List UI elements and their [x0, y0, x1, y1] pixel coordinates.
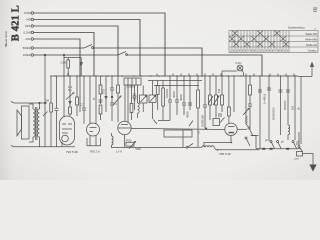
ground wire — [303, 154, 314, 166]
tube V2 — [87, 123, 100, 136]
bus junction dots — [55, 75, 296, 77]
svg-text:794 5.36: 794 5.36 — [66, 150, 78, 154]
svg-text:470Ω: 470Ω — [126, 140, 132, 143]
output transformer T1 — [33, 109, 35, 137]
switch K1 — [270, 141, 272, 143]
terminal 1 circle — [31, 12, 33, 14]
wire x256 down — [255, 136, 257, 149]
wire tube3 to tube4 — [131, 128, 225, 129]
trimmer box B — [149, 95, 156, 103]
terminal 3 circle — [31, 25, 33, 27]
svg-text:CD1: CD1 — [25, 24, 31, 28]
wire x96 to tube2 — [95, 76, 97, 124]
svg-text:Tonabn.: Tonabn. — [308, 49, 318, 53]
resistor R10 1M — [221, 95, 224, 105]
antenna arrow right — [311, 64, 313, 77]
IF transformer box — [124, 78, 141, 85]
contact line to bottom — [252, 135, 259, 137]
capacitor C8 — [175, 99, 179, 101]
wire terminal4 to x94 then down — [34, 33, 95, 77]
small box BU — [297, 152, 303, 157]
svg-text:0,2k9: 0,2k9 — [23, 31, 30, 35]
svg-text:4000: 4000 — [185, 111, 189, 118]
wire x190 — [189, 76, 191, 110]
terminal 2 circle — [31, 18, 33, 20]
table digits row — [230, 50, 289, 53]
diode D2 — [68, 101, 71, 105]
resistor R1 0,5M — [67, 60, 70, 68]
wire V3 down — [124, 135, 126, 148]
wire terminal2 to x140 then down — [34, 20, 141, 77]
tube V1 AL4 — [60, 116, 75, 145]
bus stubs up — [157, 74, 294, 77]
potentiometer arrow P4 — [113, 96, 121, 105]
svg-text:50000: 50000 — [245, 115, 249, 124]
trimmer box A — [140, 95, 148, 103]
capacitor C3 — [99, 99, 103, 101]
capacitor C13 — [248, 103, 252, 105]
wire x301 — [300, 77, 302, 145]
potentiometer P2 — [209, 95, 212, 105]
wire x125 to tube3 — [124, 85, 126, 121]
svg-text:KW9: KW9 — [24, 11, 31, 15]
svg-text:2M: 2M — [46, 100, 49, 103]
svg-text:LY 9: LY 9 — [116, 150, 122, 154]
wire x64 down to tube1 — [63, 55, 65, 117]
capacitor C15 — [267, 87, 271, 89]
junction node at x45 on terminal7 — [44, 54, 46, 56]
heater box below V2 — [87, 138, 101, 146]
wire x56 — [56, 76, 58, 108]
switch S5 on terminal7 line — [118, 52, 126, 56]
speaker line top — [11, 102, 47, 104]
resistor R6 — [117, 85, 120, 93]
wire x260 — [259, 76, 261, 149]
capacitor C16 — [279, 89, 283, 91]
capacitor C14 — [258, 89, 262, 91]
wire x295 — [294, 76, 296, 140]
svg-text:765 2.6: 765 2.6 — [90, 150, 100, 154]
svg-text:Welle-MW: Welle-MW — [305, 38, 317, 42]
diode D1 — [80, 58, 82, 77]
capacitor C12 — [218, 113, 222, 115]
svg-text:1M: 1M — [217, 88, 221, 93]
svg-text:0,0001: 0,0001 — [165, 88, 169, 98]
wire x62 short — [61, 142, 63, 147]
capacitor C4b — [110, 102, 114, 104]
resistor R14 — [76, 97, 79, 105]
wave switch table — [229, 31, 318, 53]
resistor R9 — [215, 95, 218, 105]
bottom rail right — [188, 146, 202, 148]
rail above bus — [64, 57, 81, 59]
svg-text:B 421 L: B 421 L — [10, 5, 21, 41]
wire terminal6 with switch to x202 then down — [34, 47, 85, 49]
capacitor C9 — [182, 102, 186, 104]
switch contacts right of V4 — [245, 76, 247, 124]
switch K2 — [277, 141, 279, 143]
wire terminal7 to x262 then down — [34, 54, 119, 56]
junction node at x64 on terminal7 — [63, 54, 65, 56]
svg-text:5000: 5000 — [136, 148, 142, 151]
svg-text:Welle-KW: Welle-KW — [306, 32, 318, 36]
table row captions — [305, 29, 317, 53]
capacitor C11 with long label — [203, 104, 207, 106]
heater squiggle — [202, 146, 214, 148]
resistor R15 — [130, 104, 133, 113]
svg-text:1M: 1M — [291, 105, 295, 110]
svg-text:A41: A41 — [25, 37, 31, 41]
svg-text:500000: 500000 — [283, 100, 287, 110]
svg-text:Schalterstellung: Schalterstellung — [288, 27, 305, 30]
svg-text:220V: 220V — [294, 159, 300, 161]
table X marks — [229, 31, 289, 48]
wire terminal1 to x165 then down — [34, 13, 166, 76]
svg-text:0,000185: 0,000185 — [201, 115, 205, 127]
svg-text:0,5M: 0,5M — [61, 62, 66, 65]
potentiometer P1 — [126, 142, 134, 146]
switch chain x299 — [298, 146, 300, 148]
resistor R13 — [69, 107, 72, 114]
wire terminal5 to x80 then down — [34, 39, 81, 76]
svg-text:100k9: 100k9 — [23, 53, 31, 57]
choke Dr — [288, 125, 290, 135]
wire x269 — [268, 76, 270, 141]
main bus — [50, 75, 298, 77]
wire x45 down to bottom rail — [44, 55, 46, 147]
page mark top right — [313, 8, 318, 12]
lamp 6,3V — [237, 65, 243, 71]
tube4 bottom wiring — [204, 143, 232, 148]
title B421L — [4, 5, 21, 46]
wire x90 to tube2 — [89, 76, 91, 124]
wire terminal3 to x118 then down — [34, 26, 119, 76]
svg-text:4000: 4000 — [172, 91, 176, 98]
loudspeaker — [17, 110, 22, 136]
wire x80 below bus — [79, 76, 81, 112]
resistor R2 2M — [50, 103, 53, 112]
capacitor C17 — [286, 89, 290, 91]
resistor R16 long — [162, 88, 165, 106]
svg-text:1=499,8: 1=499,8 — [263, 93, 267, 104]
tube V3 — [118, 121, 131, 134]
box left of tube4 — [213, 119, 220, 126]
speaker line bottom — [11, 146, 75, 147]
resistor R5 — [99, 105, 102, 114]
rail y85.5 — [154, 85, 199, 87]
switch S1 on terminal6 line — [84, 45, 92, 49]
wire x234 from bus — [233, 76, 235, 112]
capacitor C10 — [188, 102, 192, 104]
svg-text:50000000: 50000000 — [271, 107, 275, 120]
sub rail — [148, 80, 202, 82]
switch K3 — [292, 141, 294, 143]
wire x280.5 — [280, 76, 282, 135]
diode D3 — [105, 76, 107, 112]
svg-text:500k9: 500k9 — [23, 46, 31, 50]
wire x128 to tube3 — [127, 85, 129, 122]
capacitor C7 vertical text — [168, 99, 172, 101]
box component mid — [164, 130, 192, 137]
terminal 7 circle — [31, 54, 33, 56]
capacitor C5 — [133, 95, 137, 97]
potentiometer arrow P3 — [66, 93, 74, 100]
switch S2 end — [186, 146, 188, 148]
svg-text:6,3V~: 6,3V~ — [236, 62, 243, 65]
resistor R8 — [197, 90, 200, 108]
resistor R7 — [156, 86, 159, 95]
terminal 4 circle — [31, 31, 33, 33]
svg-text:Dr: Dr — [296, 143, 299, 146]
junction blobs — [217, 142, 290, 151]
resistor R12 — [249, 85, 252, 95]
svg-text:5000: 5000 — [104, 88, 106, 94]
coil L2 below V3 — [112, 136, 114, 145]
terminal 6 circle — [31, 47, 33, 49]
ground arrow — [309, 165, 316, 172]
tube V4 — [225, 123, 237, 135]
resistor R4 — [99, 85, 102, 94]
terminal 5 circle — [31, 38, 33, 40]
resistor R11 above tube4 — [228, 107, 231, 116]
svg-text:Welle-LW: Welle-LW — [306, 43, 318, 47]
svg-text:4000: 4000 — [179, 94, 183, 101]
capacitor C2 — [82, 107, 86, 109]
svg-text:M9: M9 — [26, 18, 30, 22]
capacitor C4a — [110, 87, 114, 89]
svg-text:780 5.36: 780 5.36 — [219, 152, 231, 156]
coil L1 — [138, 103, 140, 113]
capacitor C18 — [55, 107, 59, 109]
